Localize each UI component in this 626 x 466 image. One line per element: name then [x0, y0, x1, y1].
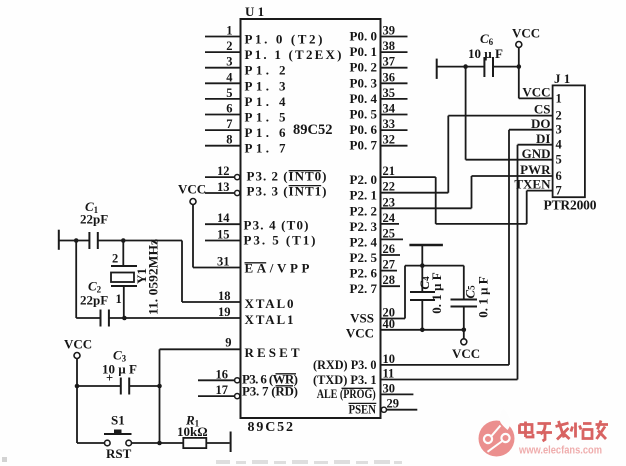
- svg-text:VCC: VCC: [452, 346, 480, 361]
- wire pin24: [381, 211, 400, 225]
- wire pin35: [381, 86, 408, 100]
- svg-text:VCC: VCC: [346, 326, 374, 341]
- svg-text:VCC: VCC: [512, 26, 540, 41]
- svg-text:10 µ F: 10 µ F: [468, 46, 503, 61]
- pin 16 P3.6 WR with bubble: [198, 367, 298, 386]
- svg-text:P2. 7: P2. 7: [350, 281, 378, 296]
- wire riser to XTAL0 pin18: [182, 241, 241, 304]
- svg-text:VCC: VCC: [522, 85, 550, 100]
- svg-text:7: 7: [556, 184, 562, 198]
- node junction C3 right: [157, 384, 162, 389]
- svg-text:P1. 6: P1. 6: [245, 125, 287, 140]
- node junction vcc rail C5: [462, 328, 467, 333]
- svg-text:U 1: U 1: [245, 4, 264, 19]
- pin labels P2.0-P2.7 inside U1: [350, 172, 378, 296]
- svg-text:40: 40: [383, 317, 396, 331]
- svg-text:30: 30: [383, 381, 396, 395]
- node junction C6 right / VCC riser: [517, 64, 522, 69]
- svg-text:22: 22: [383, 180, 396, 194]
- svg-text:P1. 3: P1. 3: [245, 78, 287, 93]
- svg-text:P0. 1: P0. 1: [350, 44, 377, 59]
- svg-text:11: 11: [383, 367, 395, 381]
- svg-text:6: 6: [556, 169, 562, 183]
- svg-text:CS: CS: [534, 102, 551, 117]
- svg-text:22pF: 22pF: [80, 293, 108, 308]
- svg-text:22pF: 22pF: [80, 212, 108, 227]
- node A junction C1 left: [74, 238, 79, 243]
- svg-text:31: 31: [217, 255, 230, 269]
- svg-text:26: 26: [383, 242, 396, 256]
- J1 pin 6 PWR: [472, 162, 562, 183]
- svg-text:P0. 3: P0. 3: [350, 75, 378, 90]
- capacitor C5 0.1uF: [451, 266, 491, 330]
- svg-text:5: 5: [556, 153, 562, 167]
- wire pin39: [381, 24, 408, 38]
- svg-text:15: 15: [217, 228, 230, 242]
- svg-text:XTAL0: XTAL0: [245, 296, 294, 311]
- pin 15 P3.5 T1: [205, 228, 316, 248]
- node junction vcc rail C4: [420, 328, 425, 333]
- svg-text:VCC: VCC: [64, 337, 92, 352]
- wire pin36: [381, 70, 408, 84]
- capacitor C1 22pF: [59, 199, 182, 249]
- svg-text:21: 21: [383, 164, 396, 178]
- svg-text:+: +: [106, 371, 113, 385]
- node VCC lower-left: [64, 337, 92, 444]
- wire pin28: [381, 273, 401, 287]
- pin 14 P3.4 T0: [205, 211, 309, 232]
- svg-text:P3. 4 (T0): P3. 4 (T0): [244, 218, 309, 233]
- ground terminal bar left: [58, 230, 60, 250]
- node junction C3 left: [75, 384, 80, 389]
- svg-text:P0. 7: P0. 7: [350, 138, 378, 153]
- pin 40 VCC rail: [346, 317, 464, 341]
- svg-text:TXEN: TXEN: [514, 177, 551, 192]
- pin 12 P3.2 INT0 with bubble: [205, 164, 327, 183]
- svg-text:17: 17: [216, 383, 229, 397]
- svg-text:XTAL1: XTAL1: [245, 312, 294, 327]
- wire GND riser to J1: [465, 67, 467, 160]
- svg-text:27: 27: [383, 258, 396, 272]
- wire pin7: [205, 117, 241, 131]
- svg-text:89C52: 89C52: [293, 122, 332, 138]
- pin 13 P3.3 INT1 with bubble: [205, 180, 327, 198]
- svg-text:34: 34: [383, 102, 396, 116]
- pin 10 RXD P3.0 wire to DO: [313, 130, 509, 372]
- small mark bottom-left: [2, 457, 7, 462]
- svg-text:29: 29: [387, 397, 400, 411]
- svg-text:P2. 2: P2. 2: [350, 203, 377, 218]
- wire pin37: [381, 55, 408, 69]
- svg-text:P1. 5: P1. 5: [245, 110, 287, 125]
- wire VCC to EA/VPP pin 31: [193, 205, 241, 269]
- svg-text:P0. 6: P0. 6: [350, 122, 378, 137]
- pin 29 PSEN with bubble: [349, 397, 418, 417]
- capacitor C4 0.1uF: [410, 266, 444, 330]
- svg-text:9: 9: [225, 336, 231, 350]
- svg-text:89C52: 89C52: [248, 420, 294, 435]
- capacitor C2 22pF: [76, 279, 240, 327]
- wire pin5: [205, 86, 241, 100]
- switch S1 RST: [77, 413, 183, 462]
- svg-text:39: 39: [383, 24, 396, 38]
- wire pin1: [205, 24, 241, 38]
- wire pin33: [381, 117, 408, 131]
- svg-text:0. 1 µ F: 0. 1 µ F: [476, 276, 491, 317]
- svg-text:www.elecfans.com: www.elecfans.com: [518, 445, 602, 457]
- svg-text:(RXD) P3. 0: (RXD) P3. 0: [313, 357, 377, 372]
- svg-text:23: 23: [383, 195, 396, 209]
- svg-text:1: 1: [116, 292, 122, 306]
- svg-text:6: 6: [226, 102, 232, 116]
- pin 31 EA/VPP label: [245, 261, 310, 276]
- svg-text:P2. 6: P2. 6: [350, 266, 378, 281]
- svg-text:25: 25: [383, 226, 396, 240]
- J1 pin 5 GND: [466, 146, 562, 167]
- svg-text:14: 14: [217, 211, 230, 225]
- svg-text:2: 2: [112, 252, 118, 266]
- svg-text:VCC: VCC: [178, 182, 206, 197]
- node VCC top right: [512, 26, 540, 99]
- svg-text:PWR: PWR: [520, 162, 551, 177]
- wire pin32: [381, 133, 408, 147]
- pin 11 TXD P3.1 wire to DI: [313, 145, 518, 387]
- svg-text:VSS: VSS: [350, 311, 374, 326]
- node VCC near pin31: [178, 182, 206, 205]
- svg-text:GND: GND: [522, 146, 551, 161]
- wire pin27: [381, 258, 398, 272]
- J1 pin 4 DI: [518, 131, 563, 152]
- svg-text:3: 3: [226, 55, 232, 69]
- svg-text:24: 24: [383, 211, 396, 225]
- wire pin25: [381, 226, 404, 240]
- svg-text:S1: S1: [111, 413, 125, 428]
- svg-text:J 1: J 1: [554, 71, 570, 86]
- svg-text:P2. 5: P2. 5: [350, 250, 378, 265]
- svg-text:(TXD) P3. 1: (TXD) P3. 1: [313, 372, 377, 387]
- svg-text:13: 13: [217, 180, 230, 194]
- svg-text:P1. 7: P1. 7: [245, 141, 287, 156]
- svg-text:P1. 4: P1. 4: [245, 94, 287, 109]
- svg-text:P1. 2: P1. 2: [245, 63, 286, 78]
- wire pin38: [381, 39, 408, 53]
- svg-text:32: 32: [383, 133, 396, 147]
- svg-text:19: 19: [218, 305, 231, 319]
- J1 pin 1 VCC: [519, 85, 562, 106]
- svg-text:33: 33: [383, 117, 396, 131]
- svg-text:P2. 0: P2. 0: [350, 172, 377, 187]
- svg-text:P2. 1: P2. 1: [350, 188, 377, 203]
- svg-text:P0. 5: P0. 5: [350, 107, 378, 122]
- svg-text:P0. 2: P0. 2: [350, 60, 377, 75]
- J1 pin 2 CS: [448, 102, 561, 123]
- svg-text:PTR2000: PTR2000: [544, 198, 597, 213]
- wire pin2: [205, 39, 241, 53]
- svg-text:3: 3: [556, 123, 562, 137]
- node junction gnd rail C4: [420, 263, 425, 268]
- svg-text:DO: DO: [531, 116, 551, 131]
- svg-text:36: 36: [383, 70, 396, 84]
- svg-text:0. 1 µ F: 0. 1 µ F: [429, 272, 444, 313]
- capacitor C6 10uF: [437, 31, 519, 77]
- svg-text:P0. 4: P0. 4: [350, 91, 378, 106]
- ground bar symbol above C4: [409, 245, 443, 266]
- svg-text:RST: RST: [106, 446, 132, 461]
- svg-text:2: 2: [556, 109, 562, 123]
- J1 pin 3 DO: [509, 116, 562, 137]
- ground terminal bar left of C6: [436, 59, 438, 79]
- pin 17 P3.7 RD with bubble: [198, 383, 298, 399]
- pin labels P0.0-P0.7 inside U1: [350, 29, 378, 153]
- svg-text:10kΩ: 10kΩ: [177, 424, 208, 439]
- svg-text:P2. 3: P2. 3: [350, 219, 378, 234]
- svg-text:1: 1: [226, 24, 232, 38]
- svg-text:RESET: RESET: [245, 345, 300, 360]
- svg-text:18: 18: [218, 289, 231, 303]
- wire pin21 P2.0 to TXEN route: [381, 164, 527, 224]
- node junction C6 left / GND riser: [463, 64, 468, 69]
- pin labels P1.0-P1.7 inside U1: [245, 32, 342, 156]
- svg-text:12: 12: [217, 164, 230, 178]
- crystal Y1 11.0592MHz: [111, 239, 161, 318]
- svg-text:5: 5: [226, 86, 232, 100]
- wire pin34: [381, 102, 408, 116]
- wire pin8: [205, 133, 241, 147]
- svg-text:16: 16: [216, 367, 229, 381]
- svg-text:DI: DI: [536, 131, 550, 146]
- svg-text:4: 4: [226, 70, 233, 84]
- svg-text:P0. 0: P0. 0: [350, 29, 377, 44]
- svg-text:37: 37: [383, 55, 396, 69]
- connector J1 PTR2000 box: [544, 71, 597, 213]
- node VCC below rail: [452, 330, 480, 361]
- svg-text:7: 7: [226, 117, 232, 131]
- caption remnants bottom: [216, 460, 402, 464]
- node B junction crystal top: [121, 238, 126, 243]
- node junction C2 right: [122, 316, 127, 321]
- pin 20 VSS wire to ground rail: [350, 266, 464, 326]
- svg-text:35: 35: [383, 86, 396, 100]
- wire pin26: [381, 242, 401, 256]
- svg-text:38: 38: [383, 39, 396, 53]
- svg-text:4: 4: [556, 138, 563, 152]
- watermark logo elecfans: [479, 409, 515, 457]
- resistor R1 10k: [177, 413, 230, 449]
- wire left vertical C1-C2: [75, 241, 77, 319]
- capacitor C3 10uF: [77, 348, 160, 395]
- svg-text:1: 1: [556, 91, 562, 105]
- wire pin4: [205, 70, 241, 84]
- watermark text 电子发烧友: [520, 421, 609, 442]
- wire pin22 P2.1 to CS route: [381, 116, 449, 194]
- pin 30 ALE/PROG: [317, 381, 414, 400]
- svg-text:28: 28: [383, 273, 396, 287]
- wire RESET pin 9: [160, 336, 241, 444]
- J1 pin 7 TXEN: [514, 177, 561, 198]
- wire pin23 P2.2 to PWR route: [381, 176, 472, 209]
- svg-text:8: 8: [226, 133, 232, 147]
- op-amp U1 89C52 MCU box: [241, 4, 381, 435]
- wire pin3: [205, 55, 241, 69]
- node junction S1/R1: [157, 441, 162, 446]
- wire pin6: [205, 102, 241, 116]
- svg-text:PSEN: PSEN: [349, 402, 377, 416]
- svg-text:2: 2: [226, 39, 232, 53]
- svg-text:11. 0592MHz: 11. 0592MHz: [146, 239, 161, 315]
- ground terminal bar right of R1: [230, 432, 232, 453]
- svg-text:10: 10: [383, 352, 396, 366]
- svg-text:P2. 4: P2. 4: [350, 234, 378, 249]
